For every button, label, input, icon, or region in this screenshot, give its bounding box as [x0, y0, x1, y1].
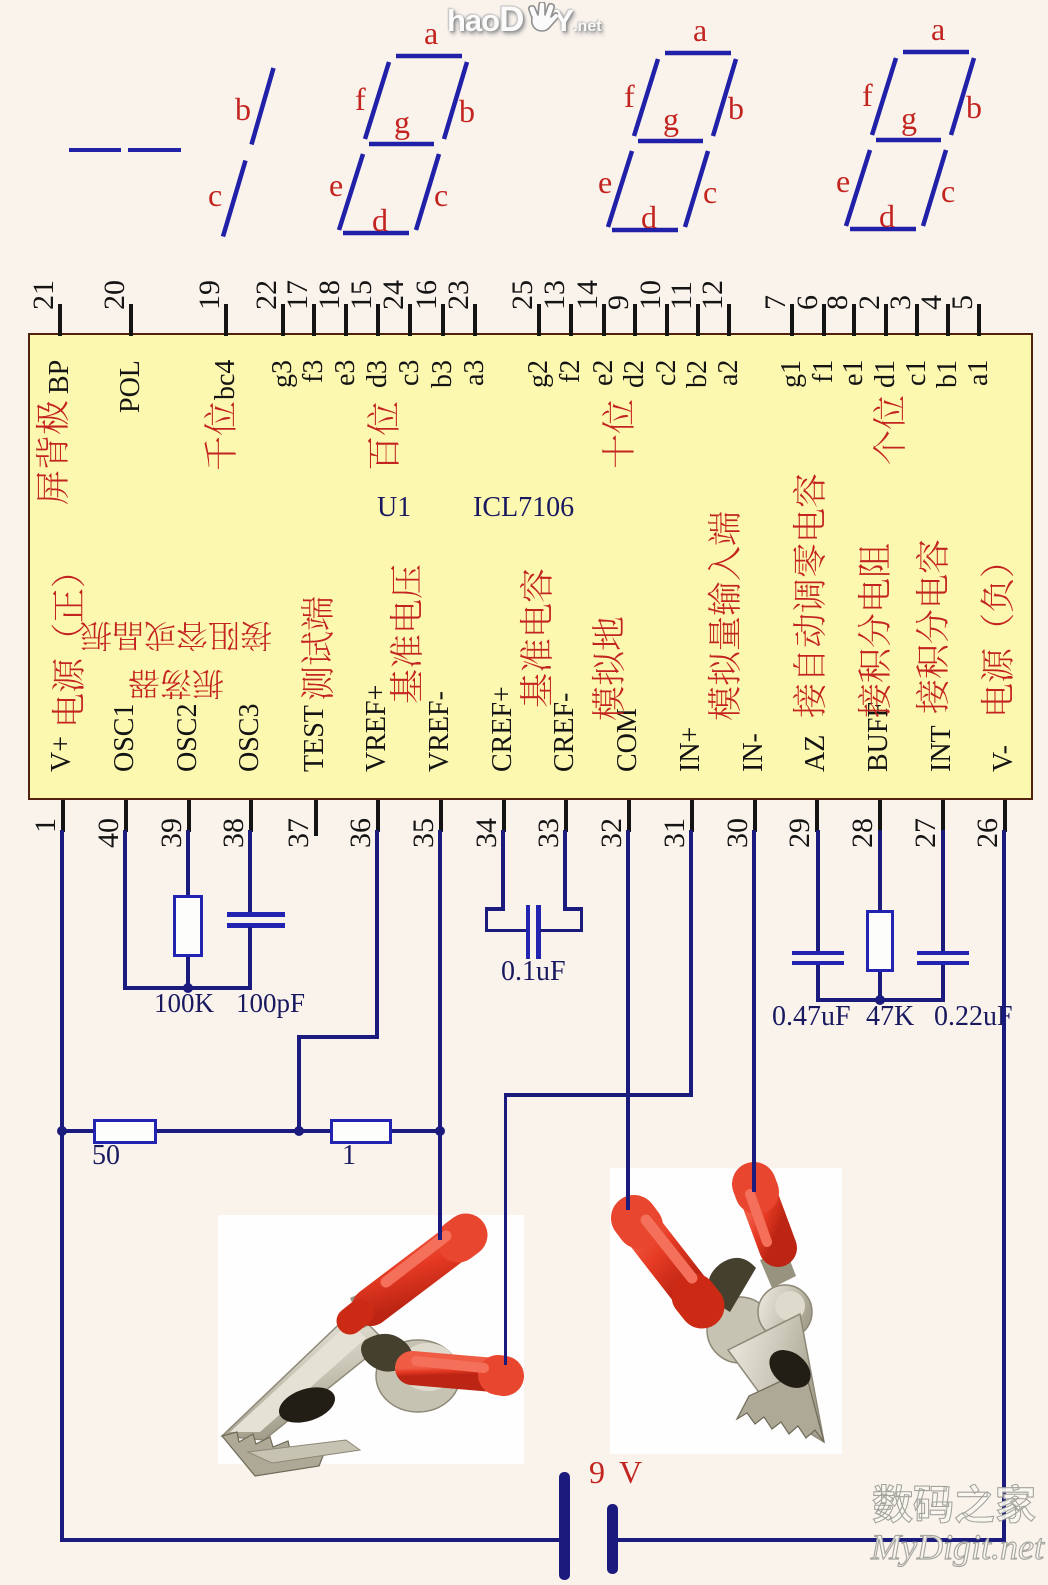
pin number 39: [157, 818, 187, 848]
display DS3: [326, 26, 476, 266]
wire VREF+ to rail: [297, 1037, 301, 1133]
pin number 20: [100, 280, 130, 310]
watermark 数码之家: [872, 1484, 1036, 1529]
wire IN+ step: [504, 1093, 691, 1097]
pin 30 bottom stub: [753, 800, 757, 832]
junction rail right: [435, 1126, 445, 1136]
pin number 23: [444, 280, 474, 310]
wire int net bottom: [818, 998, 943, 1002]
capacitor C3 0.47uF plate top: [792, 951, 844, 956]
pin number 10: [636, 280, 666, 310]
pin name BP: [46, 360, 74, 394]
capacitor C4 0.22uF plate top: [917, 951, 969, 956]
wire VREF- pin35 down to clip: [438, 830, 442, 1240]
wire OSC2 pin39 to R1 top: [186, 830, 190, 896]
pin 24 top stub: [408, 304, 412, 336]
battery BT1 negative plate: [607, 1504, 618, 1574]
pin 20 top stub: [129, 304, 133, 336]
pin 7 top stub: [790, 304, 794, 336]
refdes U1: [377, 494, 411, 522]
wire C2 left lead: [486, 929, 526, 933]
pin name b2: [684, 360, 712, 388]
DS2 label b: [235, 93, 251, 125]
pin name OSC2: [174, 704, 202, 772]
label 基准电压 ref voltage: [389, 564, 427, 704]
value 100K: [154, 990, 214, 1017]
pin number 14: [573, 280, 603, 310]
battery label 9: [589, 1456, 605, 1488]
pin name IN+: [677, 727, 705, 772]
resistor R2 50: [93, 1119, 157, 1144]
pin 19 top stub: [224, 304, 228, 336]
wire CREF- pin33 down: [563, 830, 567, 911]
wire IN+ pin31 down: [689, 830, 693, 1097]
pin number 1: [31, 818, 61, 833]
label 十位 (tens): [601, 399, 639, 469]
pin name f2: [557, 360, 585, 383]
pin 22 top stub: [281, 304, 285, 336]
pin number 19: [195, 280, 225, 310]
value 50: [92, 1142, 120, 1170]
pin number 32: [597, 818, 627, 848]
wire C1 bottom: [248, 927, 252, 990]
wire R1 bottom: [186, 957, 190, 990]
pin 35 bottom stub: [439, 800, 443, 832]
pin 5 top stub: [977, 304, 981, 336]
junction rail left: [57, 1126, 67, 1136]
label 接积分电容 integrating cap: [915, 539, 953, 714]
pin name TEST: [301, 705, 329, 772]
metal jaw: [222, 1286, 460, 1476]
label 测试端 test: [300, 596, 338, 701]
pin 38 bottom stub: [249, 800, 253, 832]
pin name e2: [590, 360, 618, 386]
pin number 12: [698, 280, 728, 310]
pin name a3: [461, 360, 489, 386]
pin 9 top stub: [633, 304, 637, 336]
pin name e3: [332, 360, 360, 386]
pin name IN-: [740, 733, 768, 772]
label 电源（正） power +: [51, 553, 89, 728]
pin name b3: [429, 360, 457, 388]
pin name VREF-: [426, 691, 454, 772]
junction osc net: [183, 983, 193, 993]
pin name d2: [621, 360, 649, 388]
pin name d3: [364, 360, 392, 388]
wire C3 bottom: [816, 965, 820, 1002]
pin number 24: [379, 280, 409, 310]
display DS1 minus segment 2: [128, 148, 181, 153]
wire VREF+ pin36 down: [375, 830, 379, 1039]
wire CREF- drop: [580, 909, 584, 932]
wire V- pin26 down: [1002, 830, 1006, 1542]
pin number 3: [886, 295, 916, 310]
pin 16 top stub: [441, 304, 445, 336]
pin number 33: [534, 818, 564, 848]
pin number 17: [283, 280, 313, 310]
pin number 26: [973, 818, 1003, 848]
wire OSC1 pin40 down: [123, 830, 127, 990]
pin number 2: [855, 295, 885, 310]
resistor R4 47K: [866, 910, 894, 972]
resistor R3 1: [330, 1119, 392, 1144]
pin 10 top stub: [665, 304, 669, 336]
display DS2 segments b,c: [200, 60, 310, 250]
pin name V+: [48, 736, 76, 772]
wire CREF+ step: [485, 907, 504, 911]
pin number 31: [660, 818, 690, 848]
pin name bc4: [212, 360, 240, 400]
display DS1 minus segment 1: [69, 148, 121, 153]
pin 29 bottom stub: [815, 800, 819, 832]
pin name g2: [525, 360, 553, 388]
label 接自动调零电容 auto-zero cap: [792, 473, 830, 718]
pin name c1: [903, 360, 931, 386]
pin name a2: [715, 360, 743, 386]
pin number 36: [346, 818, 376, 848]
pin number 4: [917, 295, 947, 310]
pin number 38: [219, 818, 249, 848]
pin 25 top stub: [537, 304, 541, 336]
capacitor C2 0.1uF plate left: [526, 905, 531, 959]
battery label V: [619, 1456, 642, 1488]
pin number 6: [793, 295, 823, 310]
pin 21 top stub: [58, 304, 62, 336]
label 模拟量输入端 analog input: [707, 511, 745, 721]
label 电源（负） power -: [980, 543, 1018, 718]
value 0.1uF: [501, 958, 566, 986]
pin number 21: [29, 280, 59, 310]
pin name CREF+: [489, 686, 517, 772]
part ICL7106: [473, 494, 574, 522]
alligator clip photo 1 (left test lead): [190, 1200, 540, 1480]
wire C2 right lead: [540, 929, 583, 933]
pin number 11: [667, 281, 697, 310]
wire COM pin32 down to clip2: [626, 830, 630, 1210]
value 0.47uF: [772, 1003, 851, 1031]
pin 12 top stub: [727, 304, 731, 336]
value 47K: [866, 1003, 914, 1031]
pin 4 top stub: [946, 304, 950, 336]
wire CREF+ pin34 down: [501, 830, 505, 911]
pin 28 bottom stub: [878, 800, 882, 832]
pin number 40: [94, 818, 124, 848]
pin name CREF-: [551, 693, 579, 772]
pin 13 top stub: [569, 304, 573, 336]
resistor R1 100K: [173, 895, 203, 957]
pin 11 top stub: [696, 304, 700, 336]
value 1: [342, 1142, 356, 1170]
value 100pF: [236, 990, 305, 1017]
wire bottom rail right: [616, 1538, 1006, 1542]
pin 3 top stub: [915, 304, 919, 336]
pin 18 top stub: [344, 304, 348, 336]
pin number 30: [723, 818, 753, 848]
pin name e1: [840, 360, 868, 386]
pin number 22: [252, 280, 282, 310]
wire C4 bottom: [941, 965, 945, 1002]
DS5 segment labels: [931, 13, 945, 45]
label 个位 (ones): [872, 395, 910, 465]
capacitor C1 100pF plate top: [227, 912, 285, 917]
pin number 13: [540, 280, 570, 310]
capacitor C4 0.22uF plate bottom: [917, 961, 969, 966]
watermark MyDigit.net: [871, 1526, 1044, 1568]
pin 37 TEST stub extension: [314, 832, 318, 836]
DS2 label c: [208, 179, 222, 211]
pin number 7: [761, 295, 791, 310]
pin name d1: [872, 360, 900, 388]
pin 26 bottom stub: [1003, 800, 1007, 832]
pin 15 top stub: [376, 304, 380, 336]
pin name OSC3: [236, 704, 264, 772]
pin 14 top stub: [602, 304, 606, 336]
pin 40 bottom stub: [124, 800, 128, 832]
pin number 16: [412, 280, 442, 310]
pin name c3: [396, 360, 424, 386]
pin number 34: [472, 818, 502, 848]
pin 34 bottom stub: [502, 800, 506, 832]
pin name POL: [117, 360, 145, 413]
pin 36 bottom stub: [376, 800, 380, 832]
wire AZ pin29 down: [816, 830, 820, 953]
alligator clip photo 2 (right test lead): [580, 1150, 900, 1480]
IC U1 body: [28, 333, 1033, 800]
pin 17 top stub: [312, 304, 316, 336]
pin name f3: [300, 360, 328, 383]
pin name INT: [928, 725, 956, 772]
pin name OSC1: [111, 704, 139, 772]
capacitor C3 0.47uF plate bottom: [792, 961, 844, 966]
wire IN+ to clip1: [504, 1095, 508, 1365]
label 接积分电阻 integrating resistor: [857, 543, 895, 718]
capacitor C2 0.1uF plate right: [536, 905, 541, 959]
wire IN- pin30 down to clip2: [752, 830, 756, 1192]
pin number 9: [604, 295, 634, 310]
label 基准电容 ref cap: [519, 568, 557, 708]
label 振荡器/接阻容或晶振 oscillator (rotated 180): [80, 604, 272, 700]
pin 8 top stub: [852, 304, 856, 336]
wire VREF+ step: [297, 1035, 378, 1039]
wire bottom rail left: [60, 1538, 565, 1542]
pin name f1: [810, 360, 838, 383]
red boot 2 (right handle): [750, 1184, 778, 1248]
wire R4 bottom: [878, 972, 882, 1002]
pin number 25: [508, 280, 538, 310]
pin number 15: [347, 280, 377, 310]
label 百位 (hundreds): [366, 401, 404, 471]
pin name a1: [965, 360, 993, 386]
pin name BUFF: [865, 702, 893, 772]
pin number 8: [823, 295, 853, 310]
pin name VREF+: [363, 685, 391, 772]
watermark haoDIY.net: [447, 0, 602, 40]
wire osc junction: [125, 986, 252, 990]
pin 27 bottom stub: [941, 800, 945, 832]
DS3 segment labels: [424, 17, 438, 49]
pin name AZ: [802, 735, 830, 772]
wire INT pin27 down: [941, 830, 945, 953]
pin 23 top stub: [473, 304, 477, 336]
wire divider rail: [62, 1129, 441, 1133]
pin 2 top stub: [884, 304, 888, 336]
pin number 29: [785, 818, 815, 848]
pin number 18: [315, 280, 345, 310]
pin name COM: [614, 708, 642, 772]
pin 32 bottom stub: [627, 800, 631, 832]
pin 39 bottom stub: [187, 800, 191, 832]
pin number 28: [848, 818, 878, 848]
pin number 27: [911, 818, 941, 848]
label 模拟地 analog gnd: [591, 616, 629, 721]
pin 31 bottom stub: [690, 800, 694, 832]
pin 6 top stub: [822, 304, 826, 336]
pin 33 bottom stub: [564, 800, 568, 832]
pin name g3: [269, 360, 297, 388]
pin number 5: [948, 295, 978, 310]
junction rail mid: [294, 1126, 304, 1136]
display DS5: [833, 22, 983, 262]
pin name V-: [990, 745, 1018, 772]
metal jaw: [707, 1250, 824, 1442]
DS4 segment labels: [693, 14, 707, 46]
red boot 1 (upper handle): [350, 1235, 466, 1321]
label 千位 (thousands): [203, 401, 241, 471]
wire CREF+ drop: [485, 909, 489, 932]
pin name c2: [653, 360, 681, 386]
wire OSC3 pin38 to C1: [248, 830, 252, 914]
pin 1 bottom stub: [61, 800, 65, 832]
pin number 37: [284, 818, 314, 848]
junction int net: [875, 995, 885, 1005]
wire V+ pin1 down: [60, 830, 64, 1542]
battery BT1 positive plate: [559, 1472, 570, 1580]
pin name b1: [934, 360, 962, 388]
pin 37 bottom stub: [314, 800, 318, 832]
wire BUFF pin28 down: [878, 830, 882, 911]
red boot 1 (left handle): [634, 1218, 702, 1306]
pin name g1: [778, 360, 806, 388]
label 屏背极 (backplane): [35, 400, 73, 505]
value 0.22uF: [934, 1003, 1013, 1031]
capacitor C1 100pF plate bottom: [227, 923, 285, 928]
pin number 35: [409, 818, 439, 848]
wire CREF- step: [565, 907, 583, 911]
display DS4: [595, 23, 745, 263]
red boot 2 (lever handle): [412, 1361, 504, 1376]
